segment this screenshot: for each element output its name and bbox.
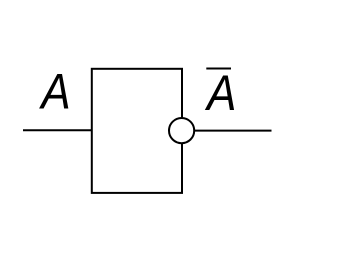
output wire	[193, 130, 272, 132]
node label A (input)	[38, 63, 70, 119]
svg-text:A: A	[38, 63, 70, 119]
node label A (output, inverted)	[204, 64, 236, 120]
inversion bubble	[169, 118, 194, 143]
inverter body (NOT gate rectangle)	[92, 69, 182, 193]
input wire	[23, 129, 92, 131]
overbar of A-bar	[206, 68, 231, 70]
svg-text:A: A	[204, 64, 236, 120]
